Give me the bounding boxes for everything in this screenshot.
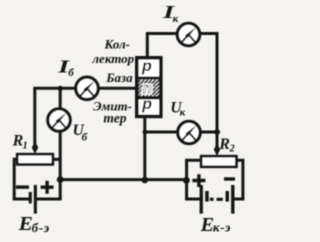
svg-text:б: б <box>82 132 88 144</box>
svg-text:n: n <box>143 80 152 97</box>
svg-text:тер: тер <box>103 110 126 125</box>
svg-text:p: p <box>141 96 152 113</box>
svg-text:p: p <box>141 58 152 75</box>
svg-text:База: База <box>105 70 133 85</box>
svg-text:б: б <box>68 67 74 79</box>
svg-text:1: 1 <box>23 140 28 151</box>
svg-text:к: к <box>173 13 179 25</box>
svg-text:E: E <box>18 213 33 235</box>
svg-text:б-э: б-э <box>32 220 50 235</box>
svg-text:R: R <box>218 136 230 153</box>
svg-text:2: 2 <box>229 143 235 154</box>
svg-text:Кол-: Кол- <box>104 37 131 52</box>
svg-text:к-э: к-э <box>213 220 231 235</box>
svg-text:лектор: лектор <box>91 51 134 66</box>
svg-text:к: к <box>180 107 186 119</box>
